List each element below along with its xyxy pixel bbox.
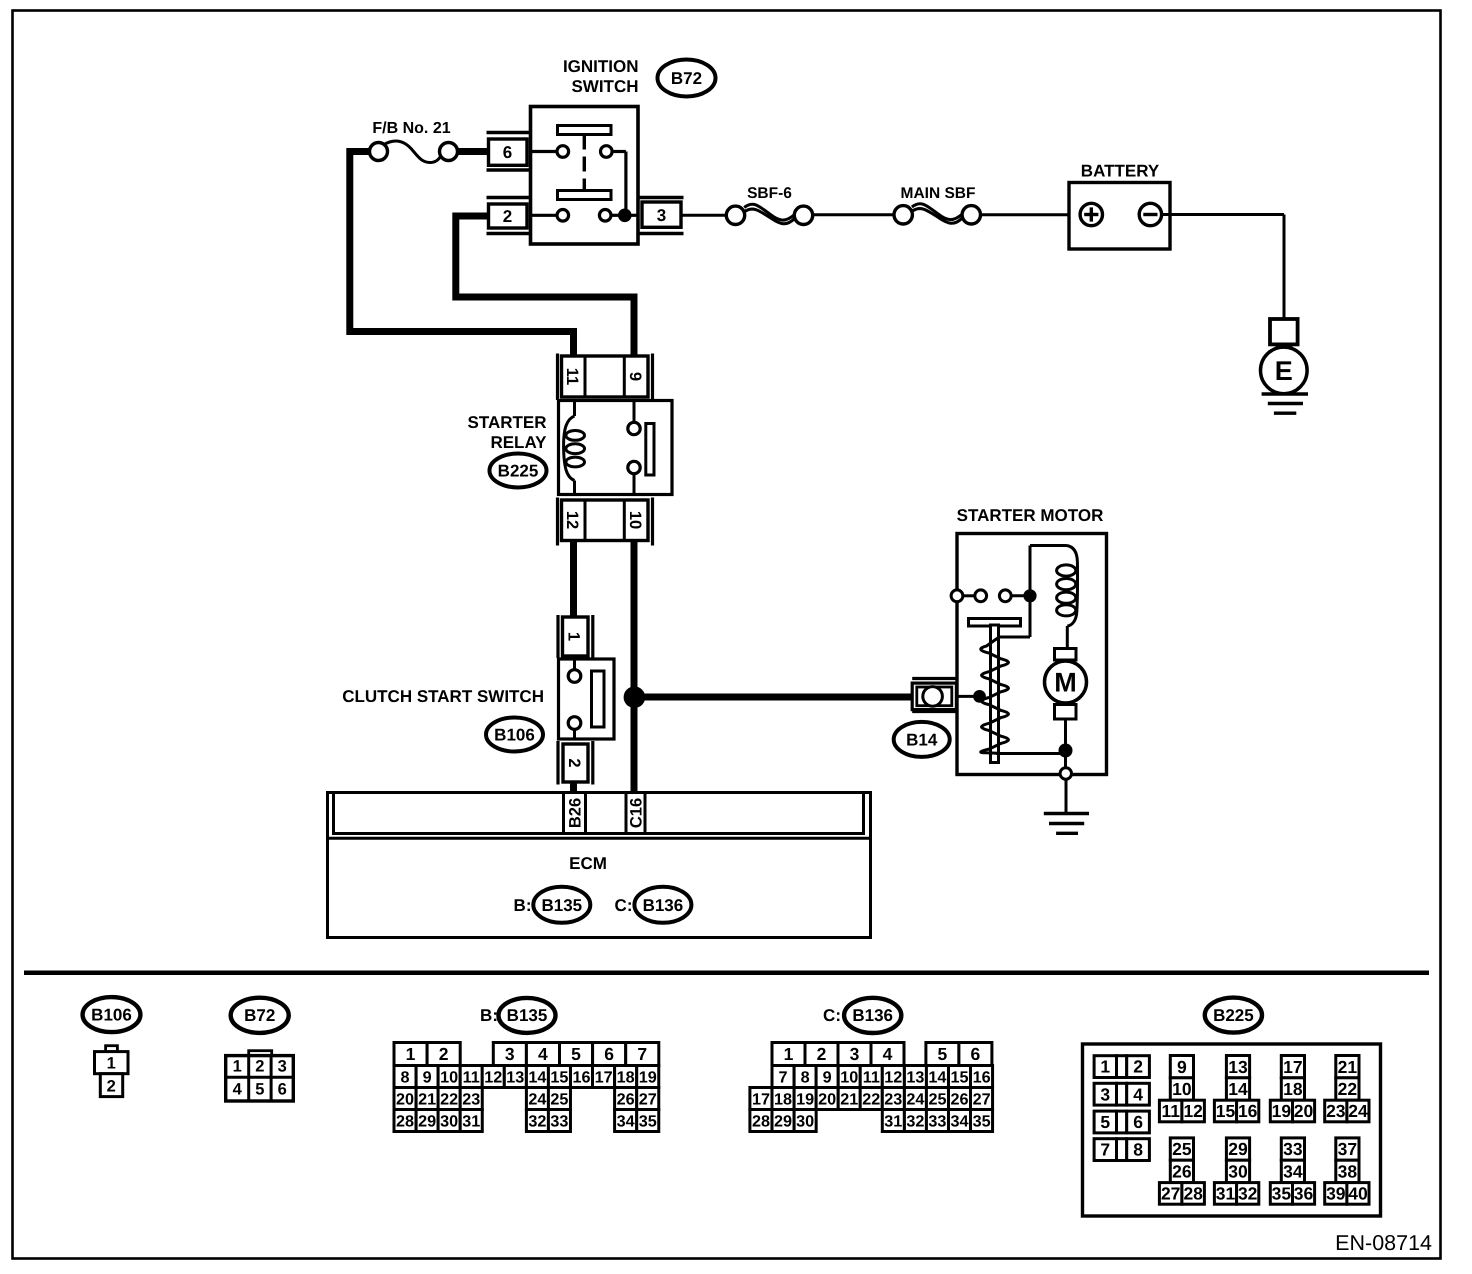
svg-text:SWITCH: SWITCH (571, 77, 638, 96)
svg-text:9: 9 (423, 1069, 432, 1087)
svg-text:M: M (1054, 668, 1077, 698)
svg-text:12: 12 (884, 1069, 902, 1087)
svg-text:27: 27 (1161, 1184, 1180, 1204)
svg-text:18: 18 (617, 1069, 635, 1087)
svg-text:B225: B225 (1213, 1006, 1254, 1025)
svg-text:B106: B106 (494, 726, 535, 745)
svg-text:11: 11 (1161, 1101, 1180, 1121)
svg-text:23: 23 (462, 1091, 480, 1109)
svg-text:B136: B136 (852, 1006, 893, 1025)
svg-text:BATTERY: BATTERY (1081, 162, 1160, 181)
svg-text:15: 15 (550, 1069, 568, 1087)
svg-text:10: 10 (626, 511, 644, 529)
svg-text:CLUTCH START SWITCH: CLUTCH START SWITCH (342, 687, 544, 706)
svg-text:B135: B135 (507, 1006, 548, 1025)
svg-text:2: 2 (255, 1058, 264, 1076)
svg-text:B72: B72 (244, 1006, 275, 1025)
svg-text:24: 24 (528, 1091, 546, 1109)
svg-text:37: 37 (1338, 1139, 1357, 1159)
svg-text:23: 23 (1326, 1101, 1346, 1121)
svg-text:10: 10 (440, 1069, 458, 1087)
svg-text:34: 34 (950, 1113, 968, 1131)
svg-text:2: 2 (1133, 1057, 1143, 1077)
svg-text:9: 9 (626, 372, 644, 381)
svg-text:6: 6 (1133, 1112, 1143, 1132)
svg-text:28: 28 (752, 1113, 770, 1131)
svg-text:19: 19 (639, 1069, 657, 1087)
svg-text:13: 13 (906, 1069, 924, 1087)
svg-text:4: 4 (1133, 1084, 1143, 1104)
svg-text:33: 33 (928, 1113, 946, 1131)
svg-text:15: 15 (1216, 1101, 1236, 1121)
svg-text:C16: C16 (628, 798, 646, 828)
svg-text:1: 1 (1100, 1057, 1110, 1077)
svg-text:5: 5 (571, 1044, 581, 1064)
svg-text:21: 21 (418, 1091, 436, 1109)
svg-text:6: 6 (503, 143, 512, 162)
svg-text:22: 22 (440, 1091, 458, 1109)
svg-text:12: 12 (1183, 1101, 1203, 1121)
svg-text:39: 39 (1326, 1184, 1346, 1204)
svg-text:25: 25 (1172, 1139, 1192, 1159)
svg-text:20: 20 (818, 1091, 836, 1109)
svg-text:SBF-6: SBF-6 (747, 185, 792, 202)
svg-text:21: 21 (840, 1091, 858, 1109)
svg-text:35: 35 (639, 1113, 657, 1131)
svg-text:8: 8 (1133, 1140, 1143, 1160)
svg-text:33: 33 (550, 1113, 568, 1131)
svg-text:32: 32 (528, 1113, 546, 1131)
svg-text:5: 5 (1100, 1112, 1110, 1132)
svg-text:33: 33 (1283, 1139, 1303, 1159)
svg-text:B136: B136 (643, 896, 684, 915)
svg-text:14: 14 (1228, 1079, 1248, 1099)
svg-text:3: 3 (657, 206, 666, 225)
svg-text:4: 4 (883, 1044, 893, 1064)
svg-text:B72: B72 (671, 69, 702, 88)
svg-text:MAIN SBF: MAIN SBF (901, 185, 976, 202)
svg-text:14: 14 (528, 1069, 546, 1087)
svg-text:15: 15 (950, 1069, 968, 1087)
svg-text:26: 26 (950, 1091, 968, 1109)
svg-text:B:: B: (480, 1006, 498, 1025)
svg-text:36: 36 (1294, 1184, 1314, 1204)
svg-text:29: 29 (1228, 1139, 1248, 1159)
svg-text:31: 31 (462, 1113, 480, 1131)
svg-text:6: 6 (971, 1044, 981, 1064)
svg-text:28: 28 (396, 1113, 414, 1131)
svg-text:2: 2 (565, 758, 583, 767)
svg-text:7: 7 (637, 1044, 647, 1064)
svg-text:1: 1 (406, 1044, 416, 1064)
svg-text:1: 1 (784, 1044, 794, 1064)
svg-text:32: 32 (1238, 1184, 1258, 1204)
svg-text:1: 1 (107, 1055, 116, 1073)
svg-text:16: 16 (572, 1069, 590, 1087)
svg-text:11: 11 (463, 1069, 480, 1087)
svg-text:26: 26 (617, 1091, 635, 1109)
svg-text:B26: B26 (567, 798, 585, 828)
svg-text:B106: B106 (91, 1006, 132, 1025)
svg-text:2: 2 (107, 1078, 116, 1096)
svg-text:34: 34 (1283, 1162, 1303, 1182)
svg-text:2: 2 (503, 207, 512, 226)
svg-text:13: 13 (506, 1069, 524, 1087)
svg-text:5: 5 (938, 1044, 948, 1064)
svg-text:B:: B: (514, 896, 532, 915)
svg-text:3: 3 (278, 1058, 287, 1076)
svg-text:7: 7 (1100, 1140, 1110, 1160)
svg-text:26: 26 (1172, 1162, 1192, 1182)
svg-text:18: 18 (774, 1091, 792, 1109)
svg-text:3: 3 (505, 1044, 515, 1064)
svg-text:23: 23 (884, 1091, 902, 1109)
svg-text:16: 16 (973, 1069, 991, 1087)
svg-text:RELAY: RELAY (490, 433, 547, 452)
svg-text:EN-08714: EN-08714 (1335, 1231, 1432, 1255)
svg-text:22: 22 (1338, 1079, 1358, 1099)
svg-text:6: 6 (604, 1044, 614, 1064)
svg-text:2: 2 (817, 1044, 827, 1064)
svg-text:IGNITION: IGNITION (563, 57, 639, 76)
svg-text:19: 19 (796, 1091, 814, 1109)
svg-text:35: 35 (1272, 1184, 1292, 1204)
svg-text:17: 17 (1283, 1057, 1302, 1077)
svg-text:17: 17 (595, 1069, 613, 1087)
svg-text:32: 32 (906, 1113, 924, 1131)
svg-text:F/B No. 21: F/B No. 21 (372, 120, 450, 137)
svg-text:30: 30 (1228, 1162, 1248, 1182)
svg-text:14: 14 (928, 1069, 946, 1087)
svg-text:20: 20 (396, 1091, 414, 1109)
svg-text:29: 29 (774, 1113, 792, 1131)
svg-text:1: 1 (233, 1058, 242, 1076)
svg-text:38: 38 (1338, 1162, 1358, 1182)
svg-text:4: 4 (233, 1081, 243, 1099)
svg-text:30: 30 (796, 1113, 814, 1131)
svg-text:11: 11 (863, 1069, 880, 1087)
svg-text:6: 6 (278, 1081, 287, 1099)
svg-text:29: 29 (418, 1113, 436, 1131)
svg-text:10: 10 (840, 1069, 858, 1087)
svg-text:40: 40 (1348, 1184, 1368, 1204)
svg-text:8: 8 (400, 1069, 409, 1087)
svg-text:10: 10 (1172, 1079, 1192, 1099)
svg-text:12: 12 (563, 511, 581, 529)
svg-text:24: 24 (1348, 1101, 1368, 1121)
svg-text:28: 28 (1183, 1184, 1203, 1204)
svg-text:25: 25 (928, 1091, 946, 1109)
svg-text:35: 35 (973, 1113, 991, 1131)
svg-text:5: 5 (255, 1081, 264, 1099)
svg-text:C:: C: (615, 896, 633, 915)
svg-text:27: 27 (973, 1091, 991, 1109)
svg-text:1: 1 (565, 632, 583, 641)
svg-text:9: 9 (823, 1069, 832, 1087)
svg-text:31: 31 (884, 1113, 902, 1131)
svg-text:B135: B135 (541, 896, 582, 915)
svg-text:22: 22 (862, 1091, 880, 1109)
svg-text:11: 11 (563, 368, 581, 385)
svg-text:9: 9 (1177, 1057, 1187, 1077)
svg-text:19: 19 (1272, 1101, 1292, 1121)
svg-text:31: 31 (1216, 1184, 1236, 1204)
svg-text:24: 24 (906, 1091, 924, 1109)
svg-text:STARTER: STARTER (467, 413, 546, 432)
svg-text:7: 7 (778, 1069, 787, 1087)
svg-text:18: 18 (1283, 1079, 1303, 1099)
svg-text:21: 21 (1338, 1057, 1358, 1077)
svg-text:2: 2 (439, 1044, 449, 1064)
svg-text:34: 34 (617, 1113, 635, 1131)
svg-text:25: 25 (550, 1091, 568, 1109)
svg-text:16: 16 (1238, 1101, 1258, 1121)
svg-text:ECM: ECM (569, 854, 607, 873)
svg-text:STARTER MOTOR: STARTER MOTOR (957, 506, 1104, 525)
svg-text:B14: B14 (906, 731, 938, 750)
svg-text:B225: B225 (498, 462, 539, 481)
svg-text:3: 3 (1100, 1084, 1110, 1104)
svg-text:30: 30 (440, 1113, 458, 1131)
svg-text:C:: C: (823, 1006, 841, 1025)
svg-text:17: 17 (752, 1091, 770, 1109)
svg-text:12: 12 (484, 1069, 502, 1087)
svg-text:E: E (1275, 356, 1293, 386)
svg-text:13: 13 (1228, 1057, 1248, 1077)
svg-text:8: 8 (801, 1069, 810, 1087)
svg-text:27: 27 (639, 1091, 657, 1109)
svg-text:3: 3 (850, 1044, 860, 1064)
svg-text:4: 4 (538, 1044, 548, 1064)
svg-text:20: 20 (1294, 1101, 1314, 1121)
